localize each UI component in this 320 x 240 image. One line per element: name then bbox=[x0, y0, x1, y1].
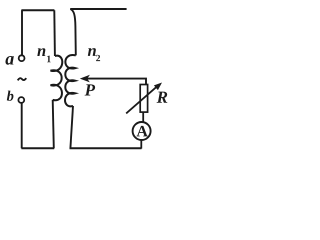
wire: left loop left vertical upper (to terminal a) bbox=[21, 10, 23, 55]
svg-text:R: R bbox=[156, 88, 168, 107]
coil n1 (primary winding, 3 loops bulging right) bbox=[51, 56, 63, 101]
rheostat arrowhead bbox=[154, 83, 162, 91]
terminal a (circle) bbox=[19, 55, 25, 61]
coil n2 (secondary winding, 4 loops bulging left) bbox=[65, 55, 76, 106]
svg-text:A: A bbox=[136, 123, 148, 140]
svg-text:a: a bbox=[5, 49, 14, 69]
slider arrowhead at P bbox=[80, 75, 90, 83]
wire: primary feed from top to coil n1 bbox=[53, 10, 56, 56]
svg-text:b: b bbox=[7, 89, 14, 105]
svg-text:2: 2 bbox=[96, 54, 101, 64]
wire: right loop bottom horizontal bbox=[70, 147, 142, 149]
wire: secondary feed from top to coil n2 bbox=[70, 9, 75, 55]
svg-text:1: 1 bbox=[46, 54, 51, 65]
rheostat diagonal arrow shaft bbox=[126, 87, 156, 114]
rheostat R body (box) bbox=[140, 85, 147, 113]
wire: rheostat bottom to ammeter bbox=[142, 112, 144, 122]
AC source tilde ~ bbox=[18, 78, 27, 80]
svg-text:n: n bbox=[37, 41, 46, 60]
wire: secondary coil bottom to bottom wire bbox=[70, 106, 73, 148]
svg-text:P: P bbox=[84, 80, 96, 99]
wire: left loop left vertical lower (from terminal b) bbox=[21, 103, 23, 148]
wire: left loop top horizontal bbox=[21, 9, 54, 11]
wire: left loop bottom horizontal bbox=[21, 147, 54, 149]
ammeter A (circle) bbox=[133, 122, 151, 140]
wire: ammeter bottom to bottom wire bbox=[140, 140, 142, 149]
slider tap P: wire from coil to rheostat with left arrowhead bbox=[84, 79, 146, 85]
wire: primary coil bottom to bottom wire bbox=[53, 100, 54, 148]
wire: right loop top horizontal (open end) bbox=[70, 8, 126, 10]
terminal b (circle) bbox=[18, 97, 24, 103]
